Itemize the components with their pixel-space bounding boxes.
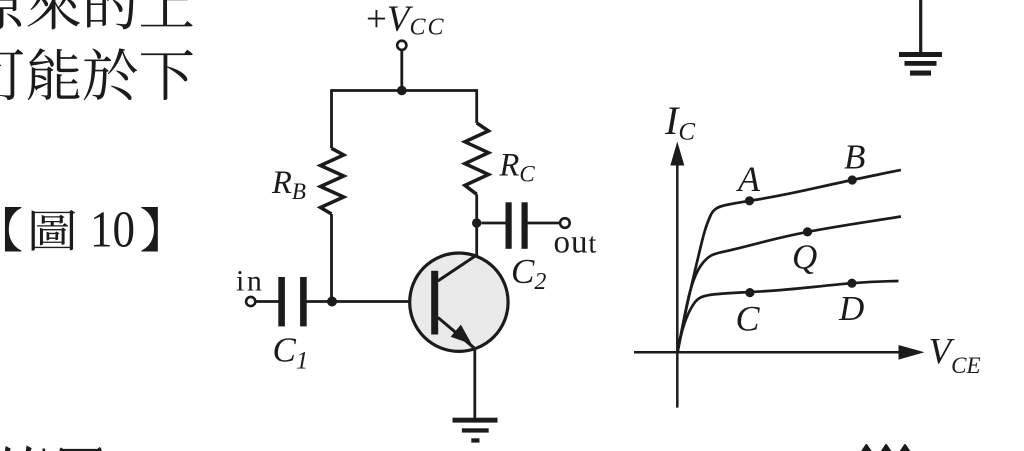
svg-text:C: C <box>736 299 761 339</box>
svg-text:RB: RB <box>271 165 306 204</box>
svg-text:IC: IC <box>664 98 695 146</box>
svg-text:D: D <box>838 289 864 328</box>
svg-text:RC: RC <box>499 148 536 187</box>
svg-text:C1: C1 <box>273 331 309 375</box>
svg-text:+VCC: +VCC <box>366 0 446 41</box>
svg-text:out: out <box>554 225 598 261</box>
svg-text:B: B <box>844 138 865 177</box>
svg-text:10: 10 <box>90 202 135 259</box>
svg-text:Q: Q <box>792 238 817 277</box>
svg-text:C2: C2 <box>511 252 546 295</box>
svg-text:A: A <box>736 159 761 199</box>
svg-text:in: in <box>236 265 264 298</box>
svg-text:VCE: VCE <box>929 332 981 379</box>
